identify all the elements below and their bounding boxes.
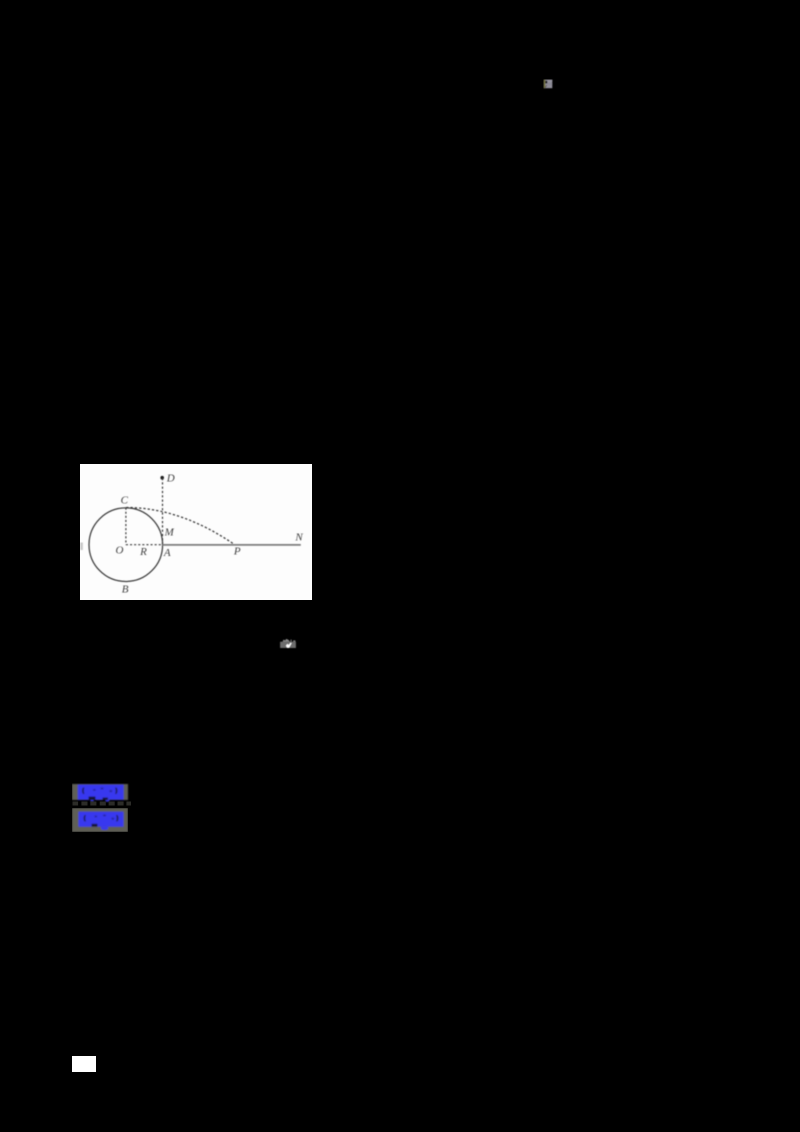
svg-text:D: D xyxy=(165,472,174,484)
blue answer button 2 xyxy=(72,808,128,832)
svg-text:N: N xyxy=(294,532,303,544)
faint dashed gray row under button 1 xyxy=(72,801,134,807)
svg-text:P: P xyxy=(232,546,240,558)
dashed projectile trajectory C to P xyxy=(126,508,235,546)
physics figure image (white box) xyxy=(80,464,312,600)
tiny gray inline icon (top area) xyxy=(543,79,554,90)
svg-text:O: O xyxy=(115,545,123,557)
white rectangle bottom-left xyxy=(72,1056,96,1072)
point D (filled dot) xyxy=(160,476,164,480)
svg-text:R: R xyxy=(139,546,147,558)
dashed radius O-C (vertical) xyxy=(124,508,126,545)
labels xyxy=(115,472,303,595)
svg-text:C: C xyxy=(120,494,128,506)
left-edge scan artifact xyxy=(80,543,83,551)
dashed radius O-A (horizontal) xyxy=(125,544,162,546)
blue answer button 1 xyxy=(72,783,130,803)
descender ticks below frame xyxy=(91,800,94,802)
small gray blob with white check xyxy=(278,637,298,650)
svg-text:M: M xyxy=(163,527,174,539)
dashed vertical D-A xyxy=(161,478,163,545)
svg-text:B: B xyxy=(121,583,128,595)
solid ground line A-N xyxy=(162,544,300,546)
svg-text:A: A xyxy=(162,547,170,559)
circle (center O, radius R) xyxy=(89,508,163,582)
